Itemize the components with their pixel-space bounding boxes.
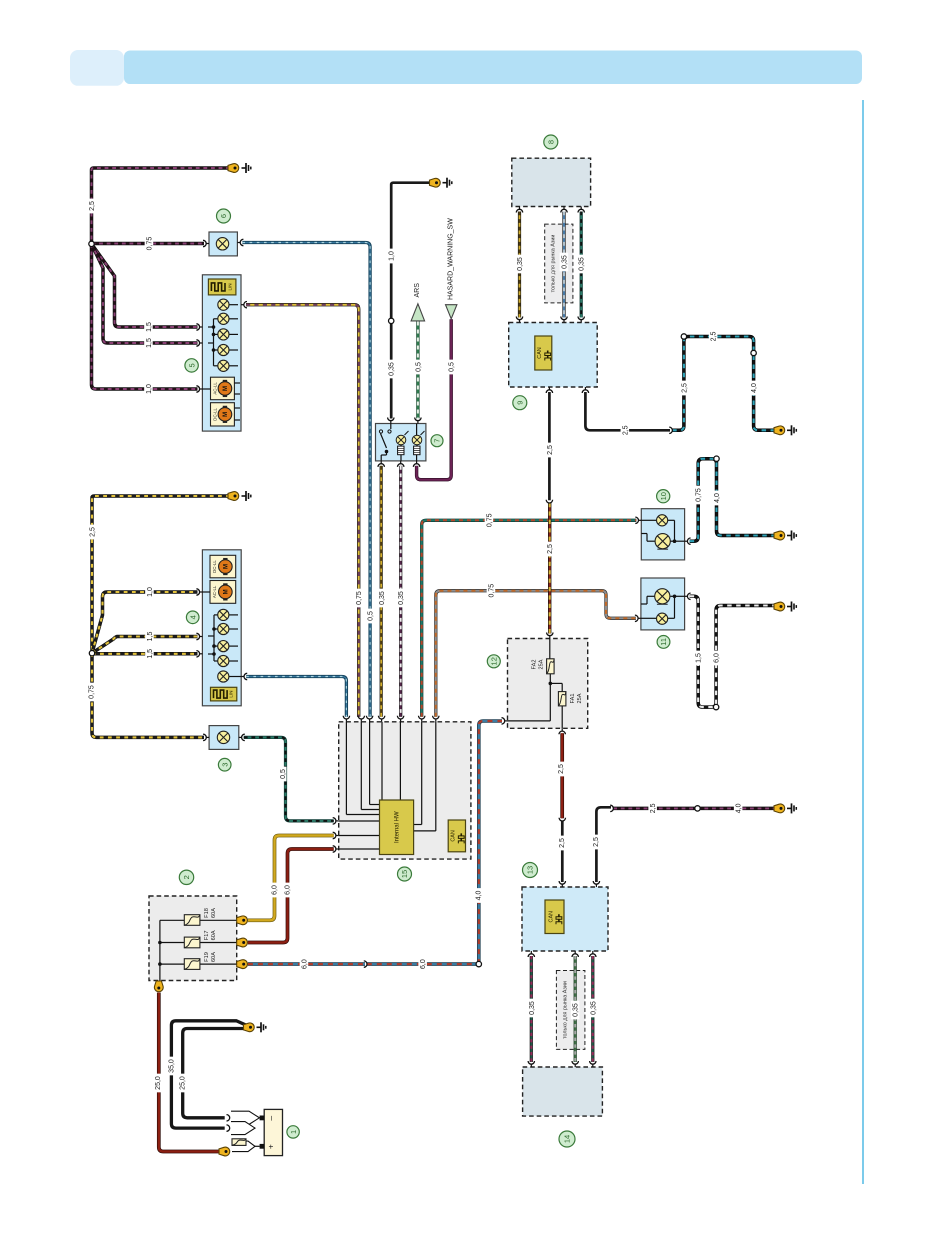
unit 5 internal wiring: [208, 305, 238, 366]
svg-text:0,35: 0,35: [573, 1003, 580, 1017]
fuse box 12 internal wiring: [508, 639, 563, 729]
splice circle mid-left junction: [89, 651, 94, 656]
svg-text:Internal HW: Internal HW: [395, 811, 401, 843]
splice circle top-left junction: [89, 241, 94, 246]
wire 1.0 purple-black to cluster 5 pin4: [92, 244, 198, 389]
lamp 4-5: [218, 671, 229, 682]
svg-text:10: 10: [659, 492, 668, 500]
lamp 5-1: [218, 299, 229, 310]
controller 15 internal wiring: [339, 722, 436, 849]
label circle 6: [217, 209, 231, 223]
wire 6.0 red-blue fuse F19 to splice: [248, 962, 365, 966]
svg-text:только для рынка Азии: только для рынка Азии: [550, 235, 556, 293]
fuse F18 60A: [184, 915, 200, 926]
ground terminal right 2: [774, 531, 796, 541]
label circle 7: [431, 435, 443, 447]
wire 2.5 purple-black to ground (top left): [92, 168, 231, 244]
label circle 9: [513, 396, 527, 410]
connector symbols: [196, 207, 690, 1068]
HASARD_WARNING_SW connector triangle: [446, 305, 457, 319]
svg-text:CAN: CAN: [537, 347, 543, 358]
ground terminal right 3: [774, 602, 796, 612]
splice circles right ground stair: [681, 334, 756, 356]
wire 0.35 teal-magenta unit 13 to block 14 (right): [591, 956, 594, 1062]
svg-text:+: +: [266, 1144, 276, 1149]
svg-text:25A: 25A: [577, 693, 583, 703]
svg-text:F17: F17: [204, 931, 210, 941]
CAN symbol in controller 15: [448, 820, 465, 852]
svg-text:AC-LL: AC-LL: [212, 382, 217, 395]
junction dots in fuse box 2: [158, 941, 162, 966]
svg-text:60A: 60A: [211, 952, 217, 962]
svg-text:0,35: 0,35: [562, 255, 569, 269]
svg-text:2,5: 2,5: [681, 383, 688, 393]
svg-text:2,5: 2,5: [559, 838, 566, 848]
label circle 15: [398, 867, 412, 881]
unit 5 motor pins: [202, 383, 240, 420]
svg-text:4,0: 4,0: [714, 493, 721, 503]
wire 2.5/4.0 purple-black to ground (right bottom): [613, 807, 776, 811]
label circle 12: [487, 655, 500, 668]
battery ground terminal: [244, 1022, 266, 1032]
svg-text:только для рынка Азии: только для рынка Азии: [562, 981, 568, 1039]
motor DC-LL in unit 5: [211, 403, 235, 426]
svg-text:2,5: 2,5: [650, 803, 657, 813]
wire 2.5 black splice to unit 13: [561, 821, 564, 882]
svg-text:25,0: 25,0: [180, 1076, 187, 1090]
svg-text:LIN: LIN: [228, 691, 233, 698]
ground terminal top-left: [228, 163, 251, 173]
svg-text:2,5: 2,5: [558, 764, 565, 774]
svg-text:CAN: CAN: [548, 911, 554, 922]
svg-text:60A: 60A: [211, 930, 217, 940]
svg-text:35,0: 35,0: [168, 1059, 175, 1073]
wire 0.75 purple-black junction to lamp unit 6: [92, 242, 205, 246]
LIN symbol in unit 4: [211, 687, 237, 701]
wire 2.5 black unit 13 to splice (right): [596, 807, 611, 882]
svg-text:FA2: FA2: [532, 660, 538, 670]
svg-text:2,5: 2,5: [90, 527, 97, 537]
controller 15 (dashed box): [339, 722, 471, 859]
asia market text (bottom): [562, 981, 568, 1039]
battery 1: [260, 1109, 283, 1155]
lamp 5-5: [218, 360, 229, 371]
svg-text:60A: 60A: [211, 908, 217, 918]
junction dot in fuse box 12: [549, 682, 553, 686]
svg-text:6: 6: [219, 214, 228, 218]
CAN symbol in unit 13: [545, 900, 564, 934]
junction dot in unit 11: [673, 595, 677, 599]
wire 2.5 dark-red fuse FA1 to splice: [560, 733, 564, 818]
svg-text:F18: F18: [204, 908, 210, 918]
LIN symbol in unit 5: [208, 279, 236, 295]
wire 6.0 dark-red fuse F17 to controller 15: [248, 849, 334, 943]
svg-text:0,35: 0,35: [517, 257, 524, 271]
lamp in unit 3: [217, 731, 229, 743]
svg-text:1,5: 1,5: [696, 653, 703, 663]
lamp 5-2: [218, 313, 229, 324]
svg-text:FA1: FA1: [570, 694, 576, 704]
label circle 3: [218, 758, 231, 771]
header tab: [70, 50, 124, 86]
wire 1.0 black ignition to relay 7: [391, 183, 431, 419]
wire 6.0/4.0 red-blue splice to fuse box 12: [367, 721, 502, 964]
wire 25.0 black battery negative 2: [183, 1029, 246, 1118]
fuse FA1 label: [570, 693, 583, 703]
wire 0.35 teal-magenta unit 13 to block 14 (left): [530, 956, 533, 1062]
svg-text:LIN: LIN: [228, 283, 233, 290]
fuse box 2 (dashed box): [149, 896, 237, 981]
svg-text:9: 9: [516, 401, 525, 405]
wire blue-teal cluster 4 to controller 15: [246, 677, 346, 717]
svg-text:1: 1: [289, 1130, 298, 1134]
wire 0.75 gray-orange lamp unit 11 to controller 15: [436, 591, 636, 717]
svg-text:M: M: [224, 564, 230, 569]
svg-text:11: 11: [659, 638, 668, 646]
wire 0.5 green-white ARS to relay 7: [416, 322, 419, 419]
svg-text:DC-LL: DC-LL: [212, 407, 217, 420]
header bar: [124, 51, 862, 85]
svg-text:4,0: 4,0: [475, 891, 482, 901]
svg-text:6,0: 6,0: [284, 885, 291, 895]
fuse FA2 label: [532, 659, 545, 669]
lamp 11-2: [657, 613, 668, 624]
lamp 10-1: [657, 515, 668, 526]
fuse box 2 internal wiring: [160, 920, 240, 984]
svg-text:5: 5: [187, 363, 196, 367]
svg-text:2,5: 2,5: [593, 837, 600, 847]
svg-text:CAN: CAN: [451, 830, 457, 841]
svg-text:8: 8: [547, 140, 556, 144]
lamp 10-2 (two-filament): [655, 534, 670, 550]
terminal F19: [237, 960, 248, 969]
svg-text:0,5: 0,5: [415, 362, 422, 372]
svg-text:6,0: 6,0: [420, 959, 427, 969]
svg-text:0,35: 0,35: [529, 1001, 536, 1015]
wire 2.5 red-yellow to fuse box 12: [548, 503, 551, 634]
connector block 14 (dashed box): [523, 1067, 603, 1116]
wire 0.35 yellow-brown relay 7 to controller 15: [380, 466, 383, 717]
splice circle ground wire right bottom: [695, 806, 700, 811]
wire 6.0 yellow fuse F18 to controller 15: [248, 836, 334, 921]
svg-text:0,5: 0,5: [368, 611, 375, 621]
svg-text:15: 15: [400, 870, 409, 878]
terminal F18: [237, 916, 248, 925]
svg-text:1,5: 1,5: [147, 632, 154, 642]
svg-text:M: M: [224, 589, 230, 594]
wire 0.35 teal-black block 8 to unit 9: [580, 212, 583, 318]
splice circle lamp10 ground wire: [714, 456, 719, 461]
unit 4 internal wiring: [202, 592, 241, 677]
svg-text:0,75: 0,75: [89, 685, 96, 699]
HASARD_WARNING_SW text: [447, 218, 454, 300]
svg-text:M: M: [223, 386, 229, 391]
svg-text:0,75: 0,75: [356, 591, 363, 605]
motor DC-LL in unit 4: [210, 555, 236, 578]
wire 0.5 teal-green from lamp 3 to controller 15: [244, 737, 334, 821]
asia-market label box (top): [545, 224, 573, 303]
svg-text:6,0: 6,0: [271, 885, 278, 895]
wire 0.75 teal-red lamp unit 10 to controller 15: [422, 520, 637, 717]
wire 2.5 yellow-black to ground (mid left): [92, 496, 230, 653]
lamp unit 3 (box): [209, 726, 239, 750]
splice circle lamp11 ground wire: [713, 704, 718, 709]
wire 0.75/4.0 black-teal lamp 10 to ground: [690, 459, 776, 542]
svg-text:0,35: 0,35: [389, 362, 396, 376]
wire size labels: [87, 199, 758, 1093]
fuse F17 label: [204, 930, 217, 940]
ground terminal top-mid: [430, 178, 452, 188]
wire 35.0 black battery negative: [171, 1021, 247, 1128]
svg-text:0,35: 0,35: [379, 591, 386, 605]
svg-text:0,75: 0,75: [489, 584, 496, 598]
svg-text:0,75: 0,75: [696, 488, 703, 502]
svg-text:6,0: 6,0: [302, 959, 309, 969]
ground terminal right 4: [774, 803, 796, 813]
svg-text:–: –: [266, 1116, 276, 1121]
svg-text:0,5: 0,5: [449, 362, 456, 372]
battery positive fusible link: [232, 1139, 260, 1152]
svg-text:1,0: 1,0: [389, 251, 396, 261]
wire 2.5 black unit 9 to splice (right): [585, 392, 670, 430]
wire 0.75 yellow-purple cluster 5 to controller 15: [246, 305, 359, 717]
svg-text:6,0: 6,0: [714, 653, 721, 663]
svg-text:1,5: 1,5: [147, 649, 154, 659]
svg-text:25,0: 25,0: [155, 1076, 162, 1090]
wire 2.5/4.0 black-teal to ground (right top): [672, 337, 776, 431]
Internal HW block: [380, 800, 414, 855]
terminal F17: [237, 938, 248, 947]
wire blue-teal lamp unit 6 to controller 15: [242, 243, 370, 717]
svg-text:25A: 25A: [539, 659, 545, 669]
wire 0.35 blue-gray block 8 to unit 9: [562, 212, 565, 318]
lamp unit 10 (box): [641, 509, 684, 560]
wire 1.5 purple-black to cluster 5 pin3: [92, 244, 198, 343]
label circle 11: [657, 636, 670, 649]
right page border line: [862, 100, 864, 1184]
instrument cluster 4 (box): [202, 550, 241, 706]
svg-text:2,5: 2,5: [547, 445, 554, 455]
svg-text:2,5: 2,5: [547, 544, 554, 554]
wire 0.5 purple hazard switch to relay 7: [417, 319, 452, 479]
svg-text:3: 3: [220, 763, 229, 767]
splice circle red-blue wire: [476, 961, 481, 966]
CAN unit 13 (dashed box): [522, 887, 608, 951]
svg-text:ARS: ARS: [414, 283, 421, 298]
svg-text:4,0: 4,0: [751, 383, 758, 393]
CAN unit 9 (dashed box): [509, 323, 598, 388]
svg-text:M: M: [223, 412, 229, 417]
lamp 4-3: [218, 641, 229, 652]
motor AC-LL in unit 4: [210, 581, 236, 604]
asia-market label box (bottom): [556, 971, 585, 1050]
fuse FA1 25A: [558, 692, 566, 706]
wire 1.5 yellow-black to cluster 4 pin2: [92, 637, 198, 654]
lamp 5-4: [218, 344, 229, 355]
wire 25.0 dark-red battery positive: [159, 993, 222, 1152]
wire 0.35 green-gray unit 13 to block 14 (mid): [574, 956, 577, 1062]
label circle 14: [559, 1131, 575, 1147]
label circle 2: [179, 870, 193, 884]
svg-text:1,5: 1,5: [146, 322, 153, 332]
junction dot in unit 10: [673, 539, 677, 543]
svg-text:2,5: 2,5: [622, 425, 629, 435]
svg-text:F19: F19: [204, 952, 210, 962]
lamp 11-1 (two-filament): [655, 589, 670, 605]
lamp 4-1: [218, 609, 229, 620]
svg-text:AC-LL: AC-LL: [212, 585, 217, 598]
wire 1.5 purple-black to cluster 5 pin2: [92, 244, 198, 327]
svg-text:0,35: 0,35: [398, 591, 405, 605]
svg-text:1,0: 1,0: [146, 384, 153, 394]
svg-text:0,35: 0,35: [579, 257, 586, 271]
svg-text:1,0: 1,0: [147, 587, 154, 597]
lamp in unit 6: [216, 238, 228, 250]
svg-text:0,5: 0,5: [280, 769, 287, 779]
svg-text:0,35: 0,35: [590, 1001, 597, 1015]
svg-text:DC-LL: DC-LL: [212, 560, 217, 573]
wire 0.35 yellow-brown block 8 to unit 9: [518, 212, 521, 318]
fuse FA2 25A: [547, 659, 555, 674]
fuse F19 60A: [184, 959, 200, 970]
svg-text:13: 13: [526, 866, 535, 874]
label circle 4: [186, 611, 199, 624]
svg-text:4,0: 4,0: [736, 803, 743, 813]
lamp 4-4: [218, 655, 229, 666]
splice circle on ignition wire: [389, 318, 394, 323]
svg-text:2,5: 2,5: [89, 201, 96, 211]
label circle 13: [523, 863, 538, 878]
fuse box 2 bottom terminal: [154, 981, 163, 992]
svg-text:7: 7: [433, 439, 442, 443]
ground terminal right 1: [774, 425, 796, 435]
asia market text (top): [550, 235, 556, 293]
ground terminal mid-left: [228, 491, 251, 501]
svg-text:1,5: 1,5: [146, 338, 153, 348]
svg-text:0,75: 0,75: [487, 513, 494, 527]
svg-text:0,75: 0,75: [147, 237, 154, 251]
connector block 8 (dashed box): [512, 158, 591, 206]
fuse F19 label: [204, 952, 217, 962]
fuse box 12 (dashed box): [508, 639, 588, 729]
svg-text:2: 2: [182, 875, 191, 879]
wire 1.5 yellow-black to cluster 4 pin3: [92, 651, 198, 655]
battery negative splice connectors: [227, 1111, 260, 1134]
svg-text:4: 4: [188, 615, 197, 619]
motor AC-LL in unit 5: [211, 377, 235, 400]
relay 7 (hazard relay box): [376, 424, 426, 461]
instrument cluster 5 (box): [202, 275, 241, 431]
lamp unit 11 (box): [641, 578, 685, 630]
wire 2.5 black unit 9 down: [548, 392, 551, 500]
fuse F17 60A: [184, 937, 200, 948]
ARS connector triangle: [411, 304, 425, 321]
wire 1.5/6.0 black-white lamp 11 to ground: [690, 596, 776, 707]
wire 1.0 yellow-black to cluster 4 motor: [92, 592, 198, 653]
CAN symbol in unit 9: [535, 336, 552, 370]
lamp unit 6 (box): [209, 232, 237, 256]
svg-text:12: 12: [490, 657, 499, 665]
ARS text: [414, 283, 421, 298]
wire 0.75 yellow-black to lamp unit 3: [92, 653, 204, 737]
wire 0.35 purple-white relay 7 to controller 15: [399, 466, 402, 717]
label circle 5: [185, 359, 198, 372]
svg-text:2,5: 2,5: [711, 332, 718, 342]
lamp 5-3: [218, 329, 229, 340]
battery positive terminal ring: [219, 1147, 230, 1156]
label circle 10: [657, 490, 670, 503]
svg-text:HASARD_WARNING_SW: HASARD_WARNING_SW: [447, 218, 454, 300]
svg-text:14: 14: [563, 1135, 572, 1143]
lamp 4-2: [218, 623, 229, 634]
label circle 8: [544, 135, 558, 149]
fuse F18 label: [204, 908, 217, 918]
label circle 1: [287, 1126, 299, 1138]
